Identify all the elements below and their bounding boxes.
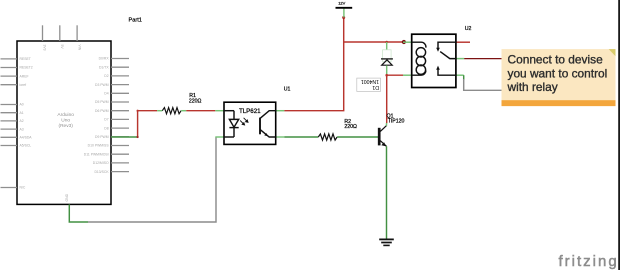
svg-text:12V: 12V: [338, 1, 345, 6]
svg-text:3V3: 3V3: [43, 45, 47, 51]
Q1 emitter diagonal: [380, 141, 386, 147]
wire: green from opto pin4 to R2: [284, 136, 318, 138]
svg-text:you want to control: you want to control: [508, 66, 608, 80]
svg-text:D2: D2: [104, 74, 108, 78]
diode D1 triangle: [382, 60, 393, 65]
svg-text:D7: D7: [104, 118, 108, 122]
svg-text:5V: 5V: [60, 45, 64, 50]
opto U1 phototransistor symbol: [260, 111, 276, 137]
wire: red vertical bend up to R1 line: [137, 111, 139, 137]
wire: red from opto pin3 to 12V rail: [284, 18, 343, 111]
wire: green from R2 to Q1 base: [337, 136, 378, 138]
wire: red 12V rail to relay coil top: [344, 41, 404, 43]
svg-text:VIN: VIN: [77, 45, 81, 51]
svg-text:RESET: RESET: [20, 57, 31, 61]
svg-text:(Rev3): (Rev3): [58, 123, 73, 129]
Q1 collector diagonal: [380, 126, 386, 132]
wire: red diode bottom to relay coil bottom: [387, 74, 403, 76]
label R1 value 220 ohm: [189, 93, 202, 104]
svg-text:D9 PWM: D9 PWM: [95, 135, 109, 139]
svg-text:D8: D8: [104, 126, 108, 130]
opto U1 pin stubs (green): [215, 111, 284, 137]
svg-text:220Ω: 220Ω: [344, 124, 357, 130]
ground symbol: [379, 239, 394, 245]
resistor R1 left lead (green): [157, 110, 162, 112]
svg-text:D11 PWM/MOSI: D11 PWM/MOSI: [84, 152, 109, 156]
opto U1 emitter arrowhead: [264, 133, 268, 136]
wire: red from bend to R1 left lead: [138, 110, 158, 112]
node: bendpoint dot at D9 wire corner: [137, 136, 139, 138]
wire: green relay NO pin down: [463, 75, 465, 80]
opto U1 LED (diode) symbol: [224, 111, 239, 137]
Arduino top pin stubs (3V3, 5V, VIN): [43, 25, 78, 41]
node: junction diode top: [385, 41, 388, 44]
relay U2 contact arrowheads: [436, 48, 440, 52]
svg-text:D5 PWM: D5 PWM: [95, 100, 109, 104]
svg-text:A5/SCL: A5/SCL: [20, 144, 32, 148]
relay U2 body: [412, 34, 456, 87]
wire: red from R1 to opto U1 pin1: [186, 110, 215, 112]
power symbol +12V: [336, 1, 353, 18]
node: junction diode bottom: [385, 74, 388, 77]
svg-text:RESET2: RESET2: [20, 66, 33, 70]
svg-text:D6 PWM: D6 PWM: [95, 109, 109, 113]
resistor R1 right lead (green): [181, 110, 186, 112]
relay U2 switch contacts: [438, 42, 456, 75]
svg-text:A4/SDA: A4/SDA: [20, 136, 33, 140]
svg-text:D1/TX: D1/TX: [99, 65, 109, 69]
label D1 1N4001 (rotated 180): [357, 78, 381, 91]
svg-text:D12/MISO: D12/MISO: [93, 161, 109, 165]
Arduino left pin stubs: [1, 59, 18, 188]
wire: green stub Arduino GND down: [69, 204, 88, 222]
svg-text:Part1: Part1: [129, 18, 142, 24]
svg-text:A0: A0: [20, 103, 24, 107]
svg-text:A3: A3: [20, 127, 24, 131]
svg-text:A2: A2: [20, 119, 24, 123]
svg-text:Uno: Uno: [61, 118, 70, 124]
wire: dark red relay common to note: [464, 58, 501, 60]
Q1 base bar: [378, 128, 381, 146]
svg-text:D3 PWM: D3 PWM: [95, 83, 109, 87]
note box: Connect to devise you want to control with relay: [502, 49, 616, 106]
svg-text:N/C: N/C: [20, 186, 26, 190]
svg-text:ioref: ioref: [20, 83, 27, 87]
svg-text:D13/SCK: D13/SCK: [94, 170, 109, 174]
node: junction at relay pin (dark): [402, 40, 406, 44]
Arduino right pin labels: [84, 57, 110, 174]
Arduino top pin labels: [43, 45, 82, 51]
svg-text:1N4001: 1N4001: [361, 78, 379, 84]
svg-text:U2: U2: [465, 26, 472, 32]
svg-text:with relay: with relay: [507, 80, 558, 94]
label R2 value 220 ohm: [344, 119, 357, 130]
svg-text:A1: A1: [20, 111, 24, 115]
relay U2 unconnected pin stub (red): [456, 41, 470, 43]
diode D1 top lead (green): [386, 42, 388, 50]
svg-text:GND: GND: [65, 193, 69, 201]
op-amp/opto U1 TLP621 body: [224, 102, 276, 144]
diode D1 bottom lead (green): [386, 65, 388, 75]
resistor R2 zigzag: [318, 134, 337, 140]
wire: green Q1 emitter to ground: [386, 146, 388, 239]
wire: gray from GND bend to opto pin2: [88, 137, 216, 222]
relay U2 coil: [412, 42, 426, 75]
diode D1 body outline: [383, 50, 392, 62]
relay U2 pin stubs (green): [403, 42, 464, 75]
transistor Q1 TIP120: [379, 113, 404, 146]
resistor R1 zigzag: [162, 108, 181, 114]
right border line: [618, 0, 620, 270]
Arduino Uno U3 (Part1) body: [17, 41, 111, 204]
diode D1 cathode bar: [381, 58, 393, 60]
svg-text:D10 PWM/SS: D10 PWM/SS: [88, 144, 110, 148]
node: bendpoint dot at R1 wire corner: [137, 110, 139, 112]
svg-text:220Ω: 220Ω: [189, 98, 202, 104]
svg-text:Arduino: Arduino: [57, 112, 74, 118]
svg-text:TLP621: TLP621: [239, 108, 261, 115]
wire: gray relay NO to note: [464, 79, 502, 90]
opto U1 LED emission arrows: [240, 118, 248, 125]
Q1 collector stub (green): [386, 123, 388, 126]
svg-text:fritzing: fritzing: [559, 253, 619, 270]
Arduino left pin labels: [20, 57, 33, 190]
Arduino center label: [57, 112, 74, 129]
svg-text:Connect to devise: Connect to devise: [508, 53, 604, 67]
Arduino right pin stubs: [111, 59, 129, 172]
svg-text:D4: D4: [104, 92, 108, 96]
svg-text:U1: U1: [284, 87, 291, 93]
Q1 emitter arrowhead: [381, 142, 386, 146]
svg-text:AREF: AREF: [20, 74, 29, 78]
wire: green from Arduino D9 pin to bend: [111, 136, 138, 138]
svg-text:D0/RX: D0/RX: [99, 57, 110, 61]
svg-text:TIP120: TIP120: [388, 119, 405, 125]
wire: red diode bottom down to Q1 collector: [386, 75, 388, 123]
node: bendpoint at 12V stub: [342, 16, 345, 19]
